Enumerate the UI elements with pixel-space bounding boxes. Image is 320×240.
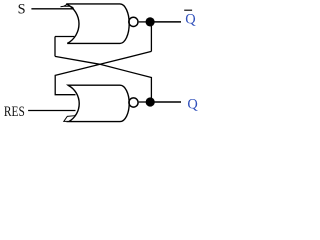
svg-text:S: S bbox=[18, 2, 26, 18]
svg-text:Q: Q bbox=[187, 96, 198, 112]
wire RES input bbox=[28, 110, 75, 112]
wire feedback Q diagonal to bottom junction bbox=[55, 56, 151, 98]
wire U1 bubble to junction bbox=[139, 21, 146, 23]
wire U2 bubble to junction bbox=[139, 101, 146, 103]
wire Qbar output bbox=[150, 21, 181, 23]
wire feedback from Qbar: vertical drop from junction bbox=[150, 22, 152, 51]
wire feedback from Q: riser at U1 lower input bbox=[55, 37, 74, 57]
wire S input bbox=[31, 8, 72, 10]
junction dot on Qbar net bbox=[146, 17, 155, 26]
NOR gate U1 (top) body bbox=[66, 4, 129, 44]
junction dot on Q net bbox=[146, 97, 155, 106]
wire Q output bbox=[150, 101, 181, 103]
svg-text:Q: Q bbox=[185, 12, 196, 28]
U1 output bubble bbox=[129, 17, 138, 26]
U1 back-arc top horn (scan step artifact) bbox=[61, 4, 74, 9]
node Qbar label bbox=[184, 10, 196, 27]
U2 output bubble bbox=[129, 98, 138, 107]
svg-text:RES: RES bbox=[4, 104, 25, 120]
NOR gate U2 (bottom) body bbox=[68, 85, 129, 121]
wire feedback Qbar diagonal to U2 input bbox=[55, 51, 151, 94]
U2 back-arc bottom horn (scan step artifact) bbox=[64, 113, 77, 122]
